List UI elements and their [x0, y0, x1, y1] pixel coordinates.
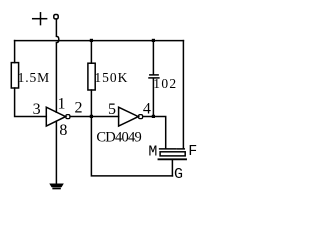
- wire U1B output to piezo M: [143, 117, 166, 149]
- svg-text:2: 2: [75, 100, 83, 117]
- svg-text:F: F: [188, 143, 197, 160]
- svg-text:M: M: [148, 144, 157, 161]
- wire piezo G stub: [171, 160, 173, 176]
- resistor R1 1.5M: [11, 63, 18, 88]
- svg-text:102: 102: [153, 76, 176, 91]
- supply terminal: [54, 15, 58, 19]
- svg-text:8: 8: [59, 122, 67, 139]
- wire left rail down to R1: [14, 41, 16, 63]
- wire supply vertical with crossover hop: [56, 20, 58, 113]
- wire 150K top: [90, 41, 92, 64]
- svg-text:1: 1: [58, 95, 66, 112]
- wire capacitor bottom to node C: [152, 79, 154, 117]
- node dot C: [152, 115, 155, 118]
- plus supply symbol: [33, 13, 47, 25]
- op-amp U1 inverter B: [119, 107, 143, 126]
- svg-text:5: 5: [108, 101, 116, 118]
- node dot rail-C1: [152, 39, 155, 42]
- svg-text:150K: 150K: [94, 70, 127, 85]
- ground: [50, 184, 63, 189]
- piezo M electrode foot: [160, 148, 177, 150]
- wire R1 bottom to node A: [15, 88, 47, 117]
- node dot B: [90, 115, 93, 118]
- node dot rail-R2: [90, 39, 93, 42]
- svg-text:3: 3: [33, 101, 41, 118]
- capacitor C1 plates: [149, 75, 159, 78]
- wire capacitor top: [152, 41, 154, 75]
- wire right rail down to piezo F: [182, 41, 184, 149]
- wire pin8 to ground: [55, 121, 57, 183]
- wire 150K bottom through node B down to bottom rail: [91, 90, 172, 176]
- svg-text:G: G: [174, 166, 183, 183]
- piezo F electrode foot: [178, 148, 185, 150]
- op-amp U1 inverter A: [46, 107, 70, 126]
- wire U1A output to node B: [70, 116, 91, 118]
- resistor R2 150K: [88, 63, 95, 90]
- svg-text:4: 4: [143, 101, 151, 118]
- piezo metal plate: [159, 158, 187, 160]
- svg-text:CD4049: CD4049: [96, 129, 141, 145]
- piezo transducer body: [160, 152, 185, 156]
- wire top rail: [15, 40, 184, 42]
- wire node B to U1B input: [91, 116, 118, 118]
- svg-text:1.5M: 1.5M: [18, 70, 49, 85]
